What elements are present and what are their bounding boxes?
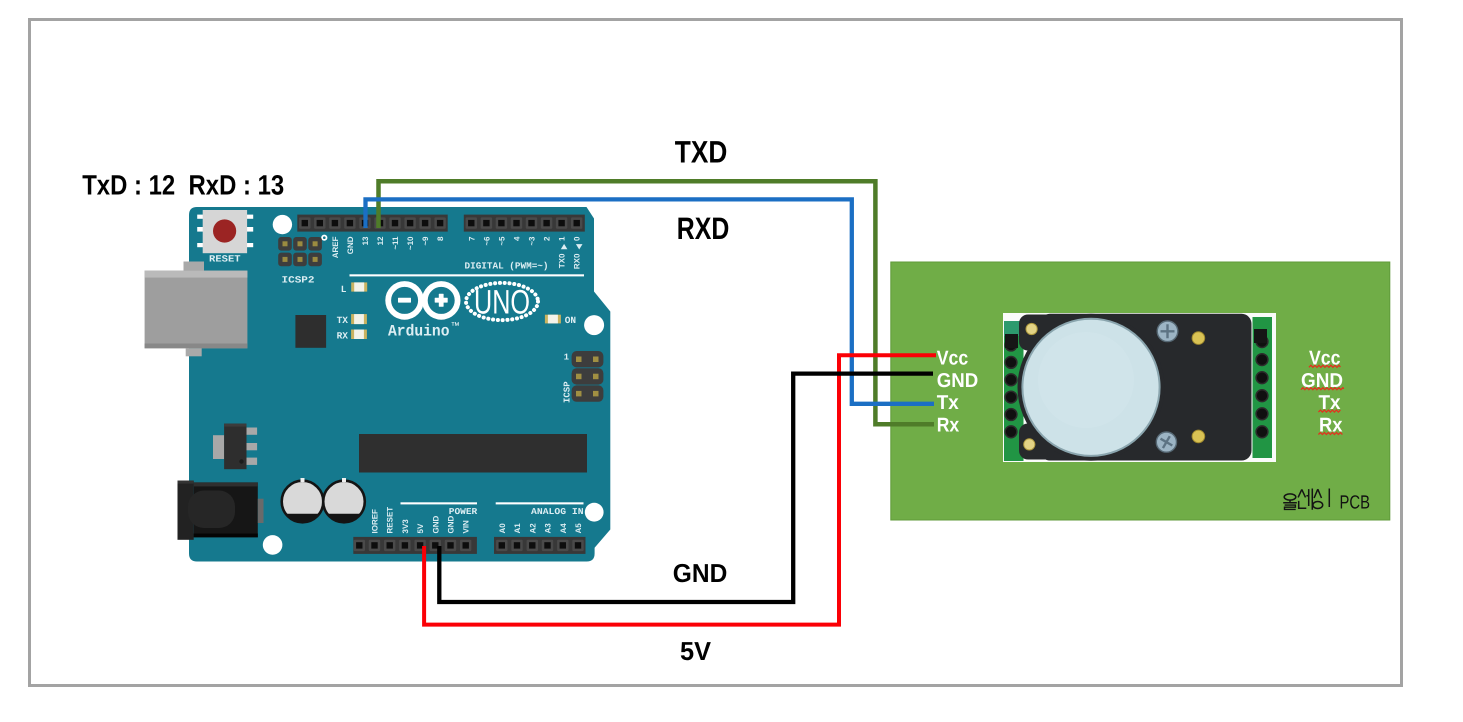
left pin labels xyxy=(937,347,979,436)
RX arrow down xyxy=(576,244,583,249)
svg-text:AREF: AREF xyxy=(331,236,340,258)
svg-text:RX: RX xyxy=(337,330,349,341)
svg-text:ICSP: ICSP xyxy=(563,381,573,403)
svg-text:RXD: RXD xyxy=(677,211,730,246)
silkscreen separator line top xyxy=(350,274,585,276)
svg-text:5V: 5V xyxy=(680,636,712,666)
power header strip xyxy=(353,537,477,554)
svg-text:GND: GND xyxy=(937,370,979,392)
mounting hole bottom-right xyxy=(585,503,604,522)
svg-text:RESET: RESET xyxy=(386,507,395,534)
ICSP2 header xyxy=(278,237,322,266)
svg-text:GND: GND xyxy=(431,516,440,534)
wire TXD green (pin12 to Rx) xyxy=(379,181,935,424)
svg-text:L: L xyxy=(341,284,347,295)
svg-text:A1: A1 xyxy=(513,523,522,534)
svg-text:7: 7 xyxy=(467,236,476,241)
svg-text:Rx: Rx xyxy=(937,415,960,437)
svg-text:3V3: 3V3 xyxy=(401,519,410,534)
svg-text:TX: TX xyxy=(337,315,349,326)
digital pin labels xyxy=(331,236,582,269)
pin-1 dot near AREF xyxy=(322,236,326,240)
ICSP header right xyxy=(572,351,604,402)
svg-text:1: 1 xyxy=(558,236,567,241)
svg-text:TX0: TX0 xyxy=(558,253,567,268)
wire GND black (GND pin to GND) xyxy=(439,374,933,602)
svg-text:A4: A4 xyxy=(559,523,568,534)
svg-text:1: 1 xyxy=(564,353,570,363)
svg-text:ICSP2: ICSP2 xyxy=(282,275,315,286)
svg-text:13: 13 xyxy=(361,236,370,245)
svg-text:TxD : 12 RxD : 13: TxD : 12 RxD : 13 xyxy=(82,170,284,201)
svg-text:RX0: RX0 xyxy=(573,253,582,269)
svg-text:Arduino: Arduino xyxy=(388,323,450,341)
svg-text:ANALOG IN: ANALOG IN xyxy=(531,507,584,517)
power pin labels xyxy=(371,507,584,534)
caption 올센싱 PCB xyxy=(1283,489,1329,510)
silkscreen separator line power xyxy=(401,502,478,504)
reset button xyxy=(197,210,253,253)
mounting hole top-right xyxy=(584,315,604,335)
capacitor C2 xyxy=(323,478,365,522)
digital header strip 1 xyxy=(297,215,447,232)
screw bottom xyxy=(1156,432,1176,452)
svg-text:GND: GND xyxy=(673,558,728,588)
USB interface chip xyxy=(295,315,326,348)
svg-text:~3: ~3 xyxy=(528,236,537,246)
arduino UNO board body xyxy=(189,207,610,562)
svg-text:™: ™ xyxy=(451,321,460,331)
gold pad top xyxy=(1192,332,1205,345)
LED ON xyxy=(545,315,561,324)
svg-text:5V: 5V xyxy=(416,523,425,533)
svg-text:GND: GND xyxy=(447,516,456,534)
svg-text:RESET: RESET xyxy=(209,254,241,265)
sensor photo background xyxy=(1003,313,1276,462)
capacitor C1 xyxy=(282,478,324,522)
svg-text:ON: ON xyxy=(565,315,577,326)
sensor disc xyxy=(1022,319,1159,456)
svg-text:2: 2 xyxy=(543,236,552,241)
UNO dotted oval xyxy=(466,283,538,320)
svg-text:UNO: UNO xyxy=(474,283,530,321)
TX arrow up xyxy=(561,244,568,249)
mounting hole top-left xyxy=(273,215,292,234)
svg-text:~9: ~9 xyxy=(421,236,430,246)
spellcheck squiggles xyxy=(1301,365,1344,434)
gold pad bottom xyxy=(1192,430,1205,443)
svg-text:A2: A2 xyxy=(528,523,537,534)
svg-text:12: 12 xyxy=(376,236,385,245)
svg-text:IOREF: IOREF xyxy=(371,509,380,534)
svg-text:VIN: VIN xyxy=(462,520,471,534)
svg-text:Vcc: Vcc xyxy=(937,347,969,369)
right header pcb strip xyxy=(1253,317,1273,458)
USB connector shield xyxy=(145,262,248,357)
svg-text:POWER: POWER xyxy=(449,507,478,517)
power jack xyxy=(178,481,264,540)
left header pcb strip xyxy=(1004,321,1024,461)
screw top xyxy=(1157,321,1178,342)
silkscreen separator line analog xyxy=(496,502,584,504)
svg-text:~11: ~11 xyxy=(391,236,400,250)
svg-text:~6: ~6 xyxy=(482,236,491,246)
wire RXD blue (pin13 to Tx) xyxy=(366,199,935,403)
svg-text:A3: A3 xyxy=(544,523,553,534)
svg-text:8: 8 xyxy=(436,236,445,241)
arduino infinity logo xyxy=(388,284,457,317)
voltage regulator xyxy=(213,424,257,470)
wire 5V red (5V pin to Vcc) xyxy=(424,355,936,624)
svg-text:GND: GND xyxy=(346,236,355,254)
small gold pad bottom-left xyxy=(1024,439,1035,450)
analog header strip xyxy=(494,537,586,554)
svg-text:Tx: Tx xyxy=(937,392,959,414)
sensor PCB green panel xyxy=(891,262,1390,520)
svg-text:PCB: PCB xyxy=(1340,493,1371,514)
svg-text:A0: A0 xyxy=(498,523,507,534)
svg-text:A5: A5 xyxy=(574,523,583,534)
svg-text:TXD: TXD xyxy=(675,134,728,169)
svg-text:DIGITAL (PWM=~): DIGITAL (PWM=~) xyxy=(465,261,549,272)
svg-text:0: 0 xyxy=(573,236,582,241)
svg-text:4: 4 xyxy=(513,236,522,241)
mounting hole bottom-left xyxy=(263,535,283,555)
svg-text:~10: ~10 xyxy=(406,236,415,250)
digital header strip 2 xyxy=(464,215,585,232)
right pin labels xyxy=(1301,347,1343,436)
sensor module body xyxy=(1018,314,1252,461)
svg-text:~5: ~5 xyxy=(497,236,506,246)
small gold pad top-left xyxy=(1026,323,1037,334)
IC socket xyxy=(359,434,587,473)
